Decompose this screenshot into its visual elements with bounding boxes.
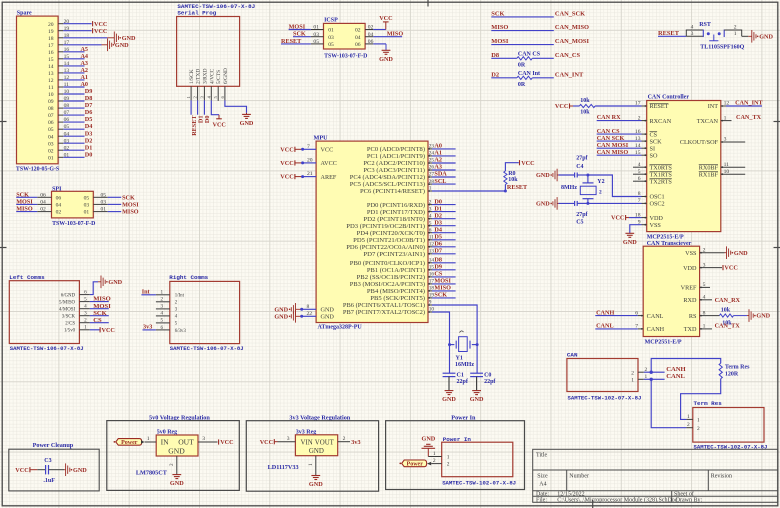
svg-text:6: 6 xyxy=(161,325,164,331)
svg-text:TSW-120-05-G-S: TSW-120-05-G-S xyxy=(16,167,60,173)
svg-text:VCC: VCC xyxy=(280,146,293,153)
svg-text:A3: A3 xyxy=(434,164,442,171)
GND flag (inverted) for Power In pin 1 xyxy=(422,436,436,457)
svg-text:GND: GND xyxy=(623,239,637,246)
wire Serial Prog pin3 to net D0 xyxy=(204,100,211,123)
wire XTAL1 down to C1 xyxy=(449,345,451,373)
svg-text:D6: D6 xyxy=(434,241,442,248)
svg-text:PB0 (PCINT0/CLKO/ICP1): PB0 (PCINT0/CLKO/ICP1) xyxy=(350,260,425,267)
svg-text:RX1BF: RX1BF xyxy=(699,171,719,178)
wire Left Comms net CS xyxy=(90,317,109,324)
svg-text:D2: D2 xyxy=(434,212,442,219)
svg-text:SDA: SDA xyxy=(434,171,447,178)
Spare pin 19 wire to VCC xyxy=(48,26,107,35)
svg-text:File:: File: xyxy=(536,498,547,504)
svg-text:CAN_INT: CAN_INT xyxy=(555,71,584,78)
svg-text:22pf: 22pf xyxy=(484,379,496,385)
svg-text:MISO: MISO xyxy=(16,206,33,213)
svg-text:VCC: VCC xyxy=(15,467,28,474)
wire XTAL2 down to C0 xyxy=(476,345,478,373)
svg-text:R0: R0 xyxy=(508,171,515,177)
svg-text:6: 6 xyxy=(429,227,432,233)
ICSP pin 01 xyxy=(311,25,334,34)
svg-text:07: 07 xyxy=(48,113,54,119)
svg-text:CAN CS: CAN CS xyxy=(518,52,541,58)
U2 pin 5 TX1RTS xyxy=(633,169,672,179)
svg-text:PD7 (PCINT23/AIN1): PD7 (PCINT23/AIN1) xyxy=(363,251,425,258)
Right Comms pin 3 (3) xyxy=(156,304,178,313)
U2 pin 9 VSS to GND flag xyxy=(623,219,661,246)
svg-text:Drawn By:: Drawn By: xyxy=(676,498,703,504)
capacitor C4 27pf xyxy=(559,155,589,177)
svg-text:03: 03 xyxy=(48,141,54,147)
svg-text:MOSI: MOSI xyxy=(93,303,111,310)
wire C3 to GND battery xyxy=(49,463,88,476)
svg-text:C1: C1 xyxy=(457,372,464,378)
svg-text:22: 22 xyxy=(307,311,313,317)
MPU pin 1 PC6 (PCINT14/RESET) net RESET xyxy=(360,184,528,195)
wire Serial Prog pin1 to net RESET xyxy=(191,100,198,135)
svg-text:Power Cleanup: Power Cleanup xyxy=(33,442,74,449)
svg-text:CANH: CANH xyxy=(666,366,686,373)
MPU pin 9 PB6 (XTAL1) wire to crystal xyxy=(343,300,477,345)
svg-text:Serial Prog: Serial Prog xyxy=(177,9,216,16)
U2 pin 16 CS net CAN CS xyxy=(597,128,658,139)
IC U3 CAN Transciever MCP2551-E/P body xyxy=(643,241,699,345)
svg-text:INT: INT xyxy=(708,103,719,110)
svg-text:D6: D6 xyxy=(85,109,93,116)
svg-text:VDD: VDD xyxy=(683,265,697,272)
net RESET wire to switch xyxy=(658,30,686,37)
svg-text:20: 20 xyxy=(307,157,313,163)
svg-text:MISO: MISO xyxy=(387,30,404,37)
svg-text:3v3: 3v3 xyxy=(351,439,360,446)
ICSP pin 06 xyxy=(355,39,374,48)
MPU pin 13 PD7 (PCINT23/AIN1) net D7 xyxy=(363,248,455,259)
svg-text:MISO: MISO xyxy=(93,296,111,303)
Right Comms pin 5 (5) xyxy=(156,318,178,327)
svg-text:01: 01 xyxy=(48,155,54,161)
svg-text:D0: D0 xyxy=(85,151,93,158)
Right Comms pin 6 (6/3v3) xyxy=(156,325,186,334)
svg-text:VCC: VCC xyxy=(94,21,107,28)
svg-text:MOSI: MOSI xyxy=(434,278,451,285)
svg-text:VCC: VCC xyxy=(611,215,624,222)
svg-text:SAMTEC-TSW-106-07-X-8J: SAMTEC-TSW-106-07-X-8J xyxy=(10,345,84,352)
wire Power to U4 IN pin 1 xyxy=(141,436,156,444)
svg-text:5: 5 xyxy=(161,318,164,324)
svg-text:09: 09 xyxy=(48,99,54,105)
ICSP pin 05 xyxy=(311,39,334,48)
svg-text:VCC: VCC xyxy=(379,15,392,22)
svg-text:2: 2 xyxy=(703,247,706,253)
U2 pin 17 RESET with 10k pullup to VCC xyxy=(555,98,669,116)
MPU pin 7 VCC with VCC port xyxy=(280,144,333,154)
wire Left Comms pin6 to GND battery xyxy=(90,276,123,295)
svg-text:PD0 (PCINT16/RXD): PD0 (PCINT16/RXD) xyxy=(367,202,425,209)
svg-text:03: 03 xyxy=(84,203,90,209)
svg-text:05: 05 xyxy=(84,195,90,201)
wire ICSP pin06 to GND flag xyxy=(373,44,393,63)
svg-text:5: 5 xyxy=(703,282,706,288)
svg-text:01: 01 xyxy=(313,25,319,31)
svg-text:10k: 10k xyxy=(580,109,590,115)
SPI pin 01 / net MISO xyxy=(84,207,139,216)
U3 pin 7 CANH wire net CANL xyxy=(595,323,664,334)
Spare pin 04 wire, net D3 xyxy=(48,130,92,140)
Power In pin 2 xyxy=(447,462,450,468)
wire U5 VOUT pin 2 to net 3v3 xyxy=(338,436,361,446)
svg-text:MISO: MISO xyxy=(122,209,139,216)
Left Comms pin 3 (3/SCK) xyxy=(62,311,90,320)
Spare pin 16 wire, net A5 xyxy=(48,46,88,56)
wire CANL down to Term Res pin 2 xyxy=(651,379,686,427)
svg-text:A2: A2 xyxy=(434,157,442,164)
svg-text:GND: GND xyxy=(274,306,288,313)
wire term resistor to Term Res pin 1 xyxy=(681,379,721,420)
svg-text:PD2 (PCINT18/INT0): PD2 (PCINT18/INT0) xyxy=(363,216,425,223)
resistor R0 10k pull-up on RESET xyxy=(504,163,519,191)
svg-text:05: 05 xyxy=(328,42,334,48)
svg-text:01: 01 xyxy=(84,210,90,216)
Spare pin 02 wire, net D1 xyxy=(48,144,92,154)
svg-text:VCC: VCC xyxy=(220,439,233,446)
wire Serial Prog pin6 to GND flag xyxy=(225,100,254,127)
svg-text:SAMTEC-TSW-102-07-X-8J: SAMTEC-TSW-102-07-X-8J xyxy=(442,479,516,486)
svg-text:VIN: VIN xyxy=(301,439,313,446)
svg-text:A1: A1 xyxy=(434,150,442,157)
svg-text:Sheet of: Sheet of xyxy=(674,491,694,498)
Term Res pin 1 xyxy=(686,414,700,424)
svg-text:D5: D5 xyxy=(85,116,93,123)
svg-text:2: 2 xyxy=(433,458,436,464)
svg-text:CAN RX: CAN RX xyxy=(597,114,621,121)
svg-text:2/TXD: 2/TXD xyxy=(196,69,202,84)
wire C1 to GND flag xyxy=(442,377,456,404)
svg-text:RESET: RESET xyxy=(650,103,669,110)
wire Power port to Power In pin 2 xyxy=(427,458,442,465)
svg-text:PC6 (PCINT14/RESET): PC6 (PCINT14/RESET) xyxy=(360,188,425,195)
svg-text:TXD: TXD xyxy=(684,326,697,333)
svg-text:VCC: VCC xyxy=(94,28,107,35)
svg-text:CAN_TX: CAN_TX xyxy=(736,114,762,121)
SPI pin 05 / net SCK xyxy=(84,192,135,201)
VCC port at R0 xyxy=(520,160,535,167)
svg-text:MISO: MISO xyxy=(491,24,508,31)
MPU pin 28 PC5 (ADC5/SCL/PCINT13) net SCL xyxy=(350,178,456,188)
svg-text:120R: 120R xyxy=(725,372,739,378)
svg-text:Term Res: Term Res xyxy=(694,400,723,407)
capacitor C0 22pf xyxy=(470,372,496,385)
svg-text:MOSI: MOSI xyxy=(491,38,509,45)
Left Comms pin 5 (5/MISO) xyxy=(59,296,90,305)
Spare pin 06 wire, net D5 xyxy=(48,116,92,126)
resistor 0R (CAN Int) net D2 to CAN_INT xyxy=(491,71,584,88)
svg-text:CAN Controller: CAN Controller xyxy=(648,94,690,100)
svg-text:04: 04 xyxy=(56,203,62,209)
svg-text:TX0RTS: TX0RTS xyxy=(650,164,673,171)
wire U4 OUT pin 3 to VCC port xyxy=(198,436,234,446)
svg-text:SCK: SCK xyxy=(491,11,504,18)
svg-text:Y2: Y2 xyxy=(597,179,604,185)
svg-text:2/CS: 2/CS xyxy=(65,322,75,327)
MPU pin 22 GND with GND battery xyxy=(274,310,334,323)
Spare pin 05 wire, net D4 xyxy=(48,123,92,133)
U2 pin 1 TXCAN net CAN_TX xyxy=(697,114,762,125)
svg-text:CAN SCK: CAN SCK xyxy=(597,135,625,142)
svg-text:11: 11 xyxy=(724,162,730,168)
svg-text:1: 1 xyxy=(161,290,164,296)
Right Comms pin 4 (4) xyxy=(156,311,178,320)
svg-text:1: 1 xyxy=(734,31,737,37)
U2 pin 10 RX1BF xyxy=(699,169,745,179)
Spare pin 01 wire, net D0 xyxy=(48,151,92,161)
SPI pin 06 / net SCK xyxy=(16,191,61,201)
svg-text:0R: 0R xyxy=(518,82,526,88)
svg-text:2: 2 xyxy=(84,318,87,324)
svg-text:10: 10 xyxy=(48,92,54,98)
svg-text:Y1: Y1 xyxy=(456,356,463,362)
SPI pin 02 / net MISO xyxy=(16,206,61,216)
svg-text:4: 4 xyxy=(691,24,694,30)
ICSP pin 03 xyxy=(311,32,334,41)
svg-text:7: 7 xyxy=(307,144,310,150)
wire Left Comms net MISO xyxy=(90,296,111,303)
svg-text:03: 03 xyxy=(313,32,319,38)
Term Res pin 2 xyxy=(686,422,700,432)
svg-text:TXCAN: TXCAN xyxy=(697,118,719,125)
svg-text:16MHz: 16MHz xyxy=(455,362,474,368)
svg-text:05: 05 xyxy=(101,192,107,198)
wire net MOSI to ICSP pin01 xyxy=(289,23,311,30)
svg-text:D3: D3 xyxy=(434,219,442,226)
svg-text:SCK: SCK xyxy=(434,292,447,299)
wire ICSP pin04, net MISO xyxy=(373,30,403,37)
wire Serial Prog pin4 to VCC port xyxy=(211,100,226,128)
svg-text:GND: GND xyxy=(240,120,254,127)
svg-text:02: 02 xyxy=(368,25,374,31)
Left Comms pin 1 (1/5v0) xyxy=(64,325,90,334)
crystal Y1 16MHz xyxy=(450,331,478,368)
svg-text:2: 2 xyxy=(599,189,602,195)
svg-text:OUT: OUT xyxy=(178,438,194,447)
svg-text:PD3 (PCINT19/OC2B/INT1): PD3 (PCINT19/OC2B/INT1) xyxy=(346,223,425,230)
svg-text:2: 2 xyxy=(697,426,700,432)
svg-text:RESET: RESET xyxy=(281,38,302,45)
wire U4 GND pin 2 to GND flag xyxy=(169,456,184,487)
U3 pin 6 CANL wire net CANH xyxy=(595,309,663,320)
MPU pin 21 AREF with VCC port xyxy=(280,171,337,181)
wire net RESET to ICSP pin05 xyxy=(281,38,311,45)
svg-text:.1uF: .1uF xyxy=(43,478,55,484)
Serial Prog pin 4 (4/VCC) xyxy=(206,68,215,100)
Serial Prog pin 6 (6/GND) xyxy=(220,68,229,100)
svg-text:CLKOUT/SOF: CLKOUT/SOF xyxy=(680,139,719,146)
svg-text:PB7 (PCINT7/XTAL2/TOSC2): PB7 (PCINT7/XTAL2/TOSC2) xyxy=(343,309,425,316)
svg-text:GND: GND xyxy=(108,279,122,286)
block Power In (outer) xyxy=(386,415,525,490)
U3 pin 4 RXD net CAN_RX xyxy=(683,295,740,305)
svg-text:8: 8 xyxy=(703,310,706,316)
Power In pin 1 xyxy=(447,455,450,461)
svg-text:VREF: VREF xyxy=(681,285,697,292)
svg-text:RXCAN: RXCAN xyxy=(650,118,672,125)
svg-text:D2: D2 xyxy=(491,71,499,78)
svg-text:Right Comms: Right Comms xyxy=(169,274,208,281)
svg-text:5: 5 xyxy=(429,220,432,226)
svg-text:CAN_INT: CAN_INT xyxy=(735,100,763,107)
svg-text:GND: GND xyxy=(321,314,335,321)
svg-text:10: 10 xyxy=(724,169,730,175)
svg-text:06: 06 xyxy=(368,39,374,45)
svg-text:PD6 (PCINT22/OC0A/AIN0): PD6 (PCINT22/OC0A/AIN0) xyxy=(346,244,425,251)
U2 pin 18 VDD with VCC port xyxy=(611,212,663,222)
svg-text:GND: GND xyxy=(379,56,393,63)
svg-text:10k: 10k xyxy=(508,177,518,183)
svg-text:GND: GND xyxy=(122,35,136,42)
svg-text:VCC: VCC xyxy=(280,160,293,167)
svg-text:2: 2 xyxy=(687,422,690,428)
svg-text:10k: 10k xyxy=(580,98,590,104)
power port Power (input) xyxy=(399,460,426,468)
MPU pin 4 PD2 (PCINT18/INT0) net D2 xyxy=(363,212,455,223)
svg-text:MOSI: MOSI xyxy=(122,202,139,209)
svg-text:1: 1 xyxy=(703,324,706,330)
svg-text:2: 2 xyxy=(429,199,432,205)
svg-text:04: 04 xyxy=(40,200,46,206)
svg-text:3v3: 3v3 xyxy=(143,324,152,331)
wire CAN pin2 to CANH node xyxy=(644,366,687,374)
svg-text:VCC: VCC xyxy=(321,147,334,154)
ICSP pin 04 xyxy=(355,32,374,41)
svg-text:5: 5 xyxy=(84,296,87,302)
op IC U1 MPU ATmega328P-PU body xyxy=(314,135,429,331)
svg-text:1/SCK: 1/SCK xyxy=(189,69,195,84)
svg-text:3: 3 xyxy=(84,311,87,317)
svg-text:GND: GND xyxy=(734,250,748,257)
svg-text:GND: GND xyxy=(115,42,129,49)
svg-text:MOSI: MOSI xyxy=(289,23,306,30)
svg-text:GND: GND xyxy=(170,480,184,487)
Spare pin 08 wire, net D7 xyxy=(48,102,92,112)
svg-text:GND: GND xyxy=(756,313,770,320)
svg-text:VCC: VCC xyxy=(212,122,225,129)
svg-text:GND: GND xyxy=(442,396,456,403)
svg-text:3: 3 xyxy=(161,304,164,310)
svg-text:08: 08 xyxy=(48,106,54,112)
sheet symbol CAN SAMTEC-TSW-102-07-X-8J xyxy=(567,351,641,401)
svg-text:D1: D1 xyxy=(85,144,93,151)
U2 pin 3 CLKOUT/SOF xyxy=(680,137,745,147)
svg-text:Left Comms: Left Comms xyxy=(9,274,45,281)
svg-text:D1: D1 xyxy=(434,205,442,212)
svg-text:1: 1 xyxy=(724,115,727,121)
Serial Prog pin 5 (5/CTS) xyxy=(213,70,222,101)
svg-text:SCK: SCK xyxy=(16,191,29,198)
svg-text:A0: A0 xyxy=(434,143,442,150)
sheet symbol Serial Prog SAMTEC-TSW-106-07-X-8J xyxy=(177,3,256,86)
SPI pin 04 / net MOSI xyxy=(16,199,61,209)
svg-text:2: 2 xyxy=(343,436,346,442)
connector SPI TSW-103-07-F-D xyxy=(52,186,96,227)
svg-text:TX1RTS: TX1RTS xyxy=(650,171,673,178)
svg-text:PC3 (ADC3/PCINT11): PC3 (ADC3/PCINT11) xyxy=(363,167,425,174)
svg-text:PD1 (PCINT17/TXD): PD1 (PCINT17/TXD) xyxy=(367,209,425,216)
svg-text:SCK: SCK xyxy=(293,31,306,38)
svg-text:C:\Users\..\Microprocessor Mod: C:\Users\..\Microprocessor Module (328).… xyxy=(557,497,677,504)
MPU pin 16 PB2 (SS/OC1B/PCINT2) net CS xyxy=(357,271,456,282)
svg-text:1/5v0: 1/5v0 xyxy=(64,329,76,334)
svg-text:2: 2 xyxy=(734,24,737,30)
resistor 0R (CAN CS) net D8 to CAN_CS xyxy=(491,52,580,69)
svg-text:01: 01 xyxy=(328,28,334,34)
wire C0 to GND flag xyxy=(470,377,484,404)
svg-text:ICSP: ICSP xyxy=(324,17,338,23)
svg-text:GND: GND xyxy=(309,481,323,488)
U2 pin 6 TX2RTS xyxy=(633,176,672,186)
svg-text:CAN_CS: CAN_CS xyxy=(555,52,581,59)
wire Serial Prog pin2 to net D1 xyxy=(197,100,204,123)
VCC port in Power Cleanup xyxy=(15,467,37,474)
switch S1 TL1105SPF160Q xyxy=(686,22,744,51)
svg-text:PB5 (SCK/PCINT5): PB5 (SCK/PCINT5) xyxy=(370,295,425,302)
Left Comms pin 4 (4/MOSI) xyxy=(59,304,90,313)
svg-text:TL1105SPF160Q: TL1105SPF160Q xyxy=(700,45,744,51)
Serial Prog pin 1 (1/SCK) xyxy=(186,69,195,100)
U3 pin 2 VSS to GND battery xyxy=(685,246,748,259)
svg-text:3/SCK: 3/SCK xyxy=(62,315,76,320)
regulator U4 5v0 Reg LM7805CT xyxy=(136,429,198,476)
svg-text:CS: CS xyxy=(650,131,658,138)
svg-text:27pf: 27pf xyxy=(576,212,588,218)
svg-text:PB2 (SS/OC1B/PCINT2): PB2 (SS/OC1B/PCINT2) xyxy=(357,274,425,281)
svg-text:1: 1 xyxy=(308,463,314,466)
svg-text:A0: A0 xyxy=(80,81,88,88)
svg-text:01: 01 xyxy=(101,207,107,213)
wire Right Comms pin6 net 3v3 xyxy=(143,324,156,331)
svg-text:SCK: SCK xyxy=(122,194,135,201)
Spare pin 14 wire, net A3 xyxy=(48,60,88,70)
svg-text:PC0 (ADC0/PCINT8): PC0 (ADC0/PCINT8) xyxy=(367,146,425,153)
wire net MISO to CAN_MISO xyxy=(491,24,589,31)
svg-text:15: 15 xyxy=(48,57,54,63)
svg-text:06: 06 xyxy=(48,120,54,126)
title block xyxy=(533,449,778,503)
svg-text:IN: IN xyxy=(161,438,170,447)
svg-text:4: 4 xyxy=(429,213,432,219)
svg-text:Term Res: Term Res xyxy=(725,365,750,371)
svg-text:D2: D2 xyxy=(85,137,93,144)
svg-text:6: 6 xyxy=(84,289,87,295)
svg-text:D9: D9 xyxy=(434,264,442,271)
svg-text:3: 3 xyxy=(703,262,706,268)
svg-text:GND: GND xyxy=(73,467,87,474)
svg-text:VCC: VCC xyxy=(280,174,293,181)
wire C4 to Y2/OSC1 junction xyxy=(577,174,589,177)
svg-text:3: 3 xyxy=(287,436,290,442)
svg-text:RESET: RESET xyxy=(507,184,528,191)
Spare pin 13 wire, net A2 xyxy=(48,67,88,77)
svg-text:CANH: CANH xyxy=(647,326,665,333)
svg-text:CAN_SCK: CAN_SCK xyxy=(555,11,585,18)
svg-text:Power: Power xyxy=(407,462,424,468)
svg-text:03: 03 xyxy=(101,200,107,206)
svg-text:SO: SO xyxy=(650,152,658,159)
svg-text:04: 04 xyxy=(48,134,54,140)
U3 pin 5 VREF xyxy=(681,282,710,292)
sheet symbol Power In SAMTEC-TSW-102-07-X-8J xyxy=(442,436,516,486)
svg-text:CAN MISO: CAN MISO xyxy=(597,149,629,156)
